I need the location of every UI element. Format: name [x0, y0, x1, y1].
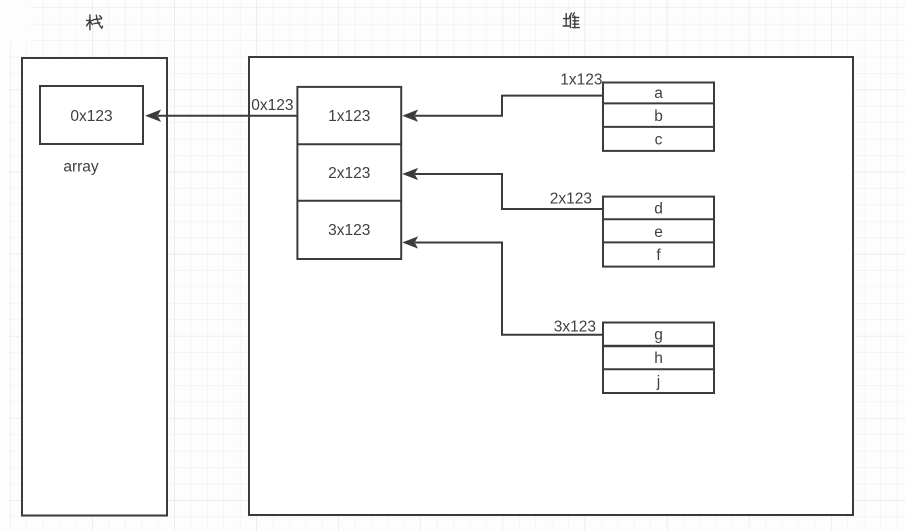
table def: [603, 197, 714, 267]
label 堆 (heap): [563, 13, 579, 28]
label 栈 (stack): [87, 15, 103, 30]
wire: heap object to stack cell: [158, 115, 297, 117]
arrowhead into 0x123: [147, 111, 161, 121]
arrowhead into 1x123: [404, 111, 417, 121]
svg-text:b: b: [654, 108, 663, 125]
svg-text:d: d: [654, 201, 663, 218]
svg-text:array: array: [63, 159, 99, 176]
box 0x123 (stack cell): [40, 86, 143, 144]
wire: table def to cell 2x123: [415, 174, 603, 209]
svg-text:2x123: 2x123: [328, 165, 370, 182]
svg-text:2x123: 2x123: [550, 191, 592, 208]
table ghj: [603, 323, 714, 394]
svg-text:1x123: 1x123: [560, 71, 602, 88]
svg-text:0x123: 0x123: [70, 108, 112, 125]
svg-text:a: a: [654, 85, 663, 102]
stack container: [22, 58, 167, 516]
heap container: [249, 57, 853, 515]
svg-text:3x123: 3x123: [554, 319, 596, 336]
svg-text:g: g: [654, 327, 663, 344]
table abc: [603, 83, 714, 151]
svg-text:3x123: 3x123: [328, 222, 370, 239]
arrowhead into 2x123: [404, 169, 417, 179]
svg-text:f: f: [656, 247, 661, 264]
row divider 2: [297, 200, 401, 202]
svg-text:h: h: [654, 350, 663, 367]
svg-text:j: j: [656, 373, 660, 390]
wire: table abc to cell 1x123: [415, 96, 603, 116]
heap object (pointer array) 3 rows: [297, 87, 401, 259]
svg-text:e: e: [654, 224, 663, 241]
row divider 1: [297, 143, 401, 145]
wire: table ghj to cell 3x123: [415, 243, 603, 335]
svg-text:1x123: 1x123: [328, 108, 370, 125]
svg-text:0x123: 0x123: [251, 97, 293, 114]
arrowhead into 3x123: [404, 237, 417, 247]
svg-text:c: c: [655, 132, 663, 149]
